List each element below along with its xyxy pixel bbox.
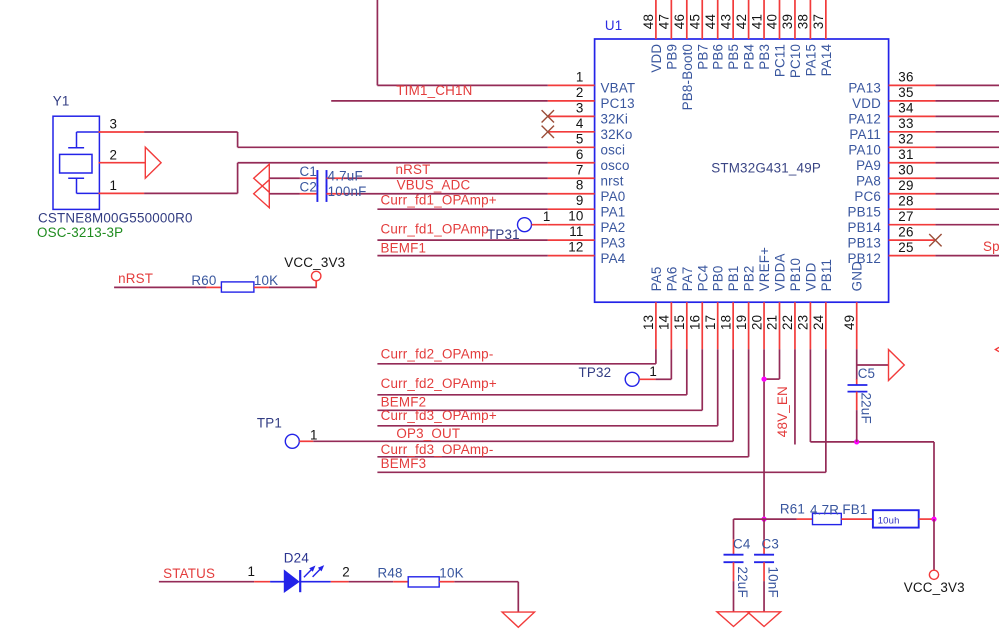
wire pin16 vertical (701, 349, 703, 410)
wire VDD vertical (809, 349, 811, 442)
C4 bottom pin (red) (733, 562, 735, 581)
svg-text:32: 32 (898, 132, 913, 147)
wire C1 gnd side (269, 177, 300, 179)
U1 pin 6 stub (548, 162, 595, 164)
Y1 pin 2 wire (red) (99, 162, 146, 164)
wire net pin30 to right edge (935, 177, 999, 179)
U1 pin 11 stub (548, 239, 595, 241)
U1 pin 12 stub (548, 255, 595, 257)
svg-text:VDD: VDD (852, 96, 881, 111)
U1 pin 26 stub (889, 239, 936, 241)
svg-text:PC6: PC6 (854, 189, 881, 204)
U1 pin 4 stub (548, 131, 595, 133)
R61 left pin (red) (797, 518, 813, 520)
svg-text:36: 36 (898, 70, 913, 85)
svg-text:8: 8 (576, 178, 584, 193)
svg-text:TIM1_CH1N: TIM1_CH1N (396, 83, 472, 98)
svg-text:3: 3 (576, 100, 584, 115)
U1 pin 33 stub (889, 131, 936, 133)
svg-text:Curr_fd3_OPAmp-: Curr_fd3_OPAmp- (381, 442, 494, 457)
wire nRST to R60 (114, 286, 206, 288)
wire C2 to U1 (344, 193, 548, 195)
svg-text:32Ko: 32Ko (601, 127, 633, 142)
U1 pin 1 stub (548, 84, 595, 86)
svg-text:22uF: 22uF (735, 567, 750, 598)
wire net pin35 to right edge (935, 100, 999, 102)
wire pin49 gnd branch (857, 364, 889, 366)
svg-text:PA4: PA4 (601, 251, 626, 266)
wire Curr_fd3_OPAmp- (377, 456, 748, 458)
capacitor C5 plates (848, 385, 868, 392)
Y1 pin 1 wire (red) (99, 192, 145, 194)
wire STATUS (159, 581, 254, 583)
wire net pin27 to right edge (935, 224, 999, 226)
wire osco (238, 162, 548, 164)
svg-text:37: 37 (811, 14, 826, 29)
LED D24 arrows (304, 565, 324, 577)
svg-text:Curr_fd1_OPAmp+: Curr_fd1_OPAmp+ (381, 192, 497, 207)
svg-text:13: 13 (641, 315, 656, 330)
svg-text:VDDA: VDDA (773, 253, 788, 291)
wire PC13 (331, 100, 548, 102)
U1 pin 10 stub (548, 224, 595, 226)
svg-text:17: 17 (703, 315, 718, 330)
C5 bottom pin (red) (856, 392, 858, 411)
C2 right pin (red) (327, 193, 345, 195)
svg-text:3: 3 (110, 117, 118, 132)
svg-text:R48: R48 (378, 566, 403, 581)
wire pin17 vertical (717, 349, 719, 426)
U1 pin 7 stub (548, 177, 595, 179)
svg-text:PA11: PA11 (849, 127, 881, 142)
capacitor C4 plates (724, 555, 744, 563)
svg-text:TP32: TP32 (579, 365, 612, 380)
VCC_3V3 power port circle (bottom) (929, 570, 938, 579)
U1 pin 41 stub (763, 0, 765, 39)
svg-text:Curr_fd1_OPAmp-: Curr_fd1_OPAmp- (381, 221, 494, 236)
svg-text:11: 11 (569, 224, 583, 239)
wire net pin28 to right edge (935, 208, 999, 210)
wire C3 to ground (763, 581, 765, 612)
wire net pin33 to right edge (935, 131, 999, 133)
svg-text:PB6: PB6 (711, 44, 726, 70)
resistor R48 body (408, 577, 439, 587)
svg-text:Curr_fd2_OPAmp-: Curr_fd2_OPAmp- (381, 346, 494, 361)
svg-text:VCC_3V3: VCC_3V3 (284, 255, 345, 270)
svg-text:Curr_fd3_OPAmp+: Curr_fd3_OPAmp+ (381, 408, 497, 423)
svg-text:49: 49 (842, 315, 857, 330)
wire pin49 down (856, 349, 858, 380)
R60 left pin (red) (206, 286, 221, 288)
svg-text:22uF: 22uF (859, 393, 874, 424)
resistor R60 body (221, 282, 254, 292)
U1 pin 35 stub (889, 100, 936, 102)
U1 pin 17 stub (717, 302, 719, 349)
U1 pin 30 stub (889, 177, 936, 179)
svg-text:1: 1 (576, 69, 584, 84)
svg-text:12: 12 (568, 240, 583, 255)
ground arrow at C1 (254, 164, 270, 192)
ground symbol at C4 (717, 612, 750, 627)
svg-text:2: 2 (342, 565, 350, 580)
U1 pin 22 stub (794, 302, 796, 349)
R48 right pin (red) (439, 581, 454, 583)
svg-text:2: 2 (110, 147, 118, 162)
svg-text:19: 19 (734, 315, 749, 330)
wire VDDA vertical (779, 349, 781, 379)
svg-text:100nF: 100nF (328, 184, 367, 199)
svg-text:2: 2 (576, 85, 584, 100)
U1 pin 2 stub (548, 100, 595, 102)
svg-text:27: 27 (898, 209, 913, 224)
wire net pin36 to right edge (935, 84, 999, 86)
wire C5 to rail (856, 410, 858, 442)
ground symbol at C3 (747, 612, 780, 627)
svg-text:PB14: PB14 (847, 220, 881, 235)
wire pin14 vertical (670, 349, 672, 379)
wire BEMF3 (377, 471, 825, 473)
svg-text:45: 45 (687, 14, 702, 29)
svg-text:9: 9 (576, 193, 584, 208)
svg-text:nRST: nRST (396, 162, 431, 177)
D24 pin 2 wire (red) (331, 581, 349, 583)
svg-text:VREF+: VREF+ (757, 247, 772, 292)
C1 left pin (red) (300, 177, 318, 179)
svg-text:PA7: PA7 (680, 266, 695, 291)
LED D24 triangle (284, 570, 299, 592)
U1 pin 18 stub (732, 302, 734, 349)
U1 pin 44 stub (717, 0, 719, 39)
test point TP32 (625, 372, 639, 386)
Y1 pin 3 wire (red) (99, 131, 145, 133)
svg-text:24: 24 (811, 314, 826, 330)
crystal Y1 symbol (60, 132, 100, 193)
svg-text:PA14: PA14 (819, 43, 834, 76)
svg-text:PC10: PC10 (788, 44, 803, 78)
test point TP31 (518, 218, 532, 232)
svg-text:4.7R: 4.7R (810, 503, 839, 518)
svg-text:10K: 10K (254, 273, 278, 288)
svg-text:20: 20 (749, 315, 764, 330)
U1 pin 43 stub (732, 0, 734, 39)
wire C4 top (733, 519, 735, 539)
wire net pin34 to right edge (935, 115, 999, 117)
svg-text:PB3: PB3 (757, 44, 772, 70)
svg-text:VBAT: VBAT (601, 81, 636, 96)
svg-text:1: 1 (543, 209, 551, 224)
svg-text:46: 46 (672, 14, 687, 29)
wire net pin29 to right edge (935, 193, 999, 195)
no-connect X pin 26 (929, 234, 941, 246)
wire pin24 vertical (825, 349, 827, 472)
U1 pin 20 stub (763, 302, 765, 349)
wire pin15 vertical (686, 349, 688, 395)
svg-text:PA5: PA5 (649, 266, 664, 291)
svg-text:34: 34 (898, 101, 914, 116)
wire Y1 pin3 horizontal (144, 131, 238, 133)
wire Y1 pin3 vertical (237, 132, 239, 147)
svg-text:C3: C3 (762, 536, 780, 551)
svg-text:osco: osco (601, 158, 630, 173)
svg-text:PA0: PA0 (601, 189, 626, 204)
C2 left pin (red) (300, 193, 318, 195)
svg-text:PB15: PB15 (847, 204, 881, 219)
svg-text:PA10: PA10 (848, 143, 881, 158)
wire 3V3 rail horizontal (810, 441, 934, 443)
wire Y1 pin1 vertical (237, 163, 239, 194)
svg-text:STM32G431_49P: STM32G431_49P (711, 161, 821, 176)
junction at C5 bottom (854, 439, 859, 444)
D24 pin 1 wire (red) (254, 581, 270, 583)
wire 48V_EN (794, 349, 796, 444)
svg-text:44: 44 (703, 14, 718, 30)
svg-text:PB1: PB1 (726, 265, 741, 291)
U1 pin 19 stub (748, 302, 750, 349)
svg-text:TP1: TP1 (257, 415, 282, 430)
U1 pin 29 stub (889, 193, 936, 195)
TP1 pin wire (red) (299, 440, 313, 442)
svg-text:28: 28 (898, 193, 913, 208)
wire TP32 to pin14 (656, 378, 672, 380)
svg-text:10nF: 10nF (766, 567, 781, 598)
svg-text:48V_EN: 48V_EN (775, 386, 790, 437)
R60 right pin (red) (254, 286, 269, 288)
svg-text:30: 30 (898, 162, 913, 177)
U1 pin 32 stub (889, 146, 936, 148)
svg-text:VDD: VDD (803, 262, 818, 291)
U1 pin 3 stub (548, 115, 595, 117)
svg-text:STATUS: STATUS (163, 566, 215, 581)
svg-text:10uh: 10uh (878, 516, 900, 527)
svg-text:15: 15 (672, 315, 687, 330)
C3 bottom pin (red) (763, 562, 765, 581)
svg-text:40: 40 (765, 14, 780, 29)
svg-text:22: 22 (780, 315, 795, 330)
wire Y1 pin1 horizontal (144, 192, 238, 194)
svg-text:1: 1 (248, 564, 256, 579)
svg-text:OP3_OUT: OP3_OUT (396, 426, 460, 441)
svg-text:43: 43 (718, 14, 733, 29)
svg-text:PA8: PA8 (856, 173, 881, 188)
inductor FB1 body (873, 510, 919, 527)
svg-text:47: 47 (657, 14, 672, 29)
svg-text:VCC_3V3: VCC_3V3 (904, 580, 965, 595)
svg-text:33: 33 (898, 116, 913, 131)
svg-text:D24: D24 (284, 551, 310, 566)
crystal Y1 box (53, 116, 99, 209)
wire TIM1_CH1N vertical (376, 0, 378, 85)
svg-text:OSC-3213-3P: OSC-3213-3P (37, 225, 123, 240)
svg-text:PB13: PB13 (847, 235, 881, 250)
LED D24 cathode bar (299, 570, 301, 592)
svg-text:C1: C1 (299, 164, 317, 179)
capacitor C1 plates (317, 170, 326, 186)
wire BEMF2 (377, 409, 702, 411)
svg-text:10: 10 (568, 209, 583, 224)
C3 top pin (red) (763, 539, 765, 554)
svg-text:4.7uF: 4.7uF (328, 169, 363, 184)
wire VREF+ vertical (763, 349, 765, 519)
svg-text:5: 5 (576, 131, 584, 146)
svg-text:nrst: nrst (601, 173, 624, 188)
svg-text:31: 31 (898, 147, 913, 162)
wire pin18 vertical (732, 349, 734, 441)
svg-text:PA15: PA15 (803, 44, 818, 77)
no-connect X pin 3 (542, 110, 554, 122)
U1 pin 28 stub (889, 208, 936, 210)
svg-text:18: 18 (718, 315, 733, 330)
wire Curr_fd1_OPAmp+ (377, 208, 547, 210)
wire pin13 vertical (655, 349, 657, 364)
U1 pin 42 stub (748, 0, 750, 39)
U1 pin 27 stub (889, 224, 936, 226)
TP31 pin wire (red) (532, 224, 548, 226)
svg-text:CSTNE8M00G550000R0: CSTNE8M00G550000R0 (38, 211, 193, 226)
svg-text:48: 48 (641, 14, 656, 29)
wire net pin32 to right edge (935, 146, 999, 148)
svg-text:Sp: Sp (983, 239, 999, 254)
svg-text:PB7: PB7 (695, 44, 710, 70)
svg-text:R61: R61 (780, 502, 805, 517)
svg-text:VBUS_ADC: VBUS_ADC (397, 178, 471, 193)
no-connect X pin 4 (542, 126, 554, 138)
U1 pin 9 stub (548, 208, 595, 210)
svg-text:C4: C4 (733, 536, 751, 551)
U1 pin 34 stub (889, 115, 936, 117)
svg-text:PA6: PA6 (664, 266, 679, 291)
junction VREF+/VDDA (761, 377, 766, 382)
svg-text:38: 38 (796, 14, 811, 29)
svg-text:PC11: PC11 (773, 44, 788, 77)
svg-text:PC13: PC13 (601, 96, 635, 111)
svg-text:42: 42 (734, 14, 749, 29)
svg-text:PB5: PB5 (726, 44, 741, 70)
svg-text:4: 4 (576, 116, 584, 131)
svg-text:PA13: PA13 (848, 81, 881, 96)
svg-text:FB1: FB1 (842, 502, 867, 517)
ground arrow at pin49 (889, 350, 905, 381)
capacitor C3 plates (754, 555, 774, 563)
svg-text:R60: R60 (191, 273, 216, 288)
wire pin19 vertical (748, 349, 750, 457)
wire 3V3 rail down (933, 442, 935, 519)
wire C2 gnd side (269, 193, 300, 195)
U1 pin 25 stub (889, 255, 936, 257)
svg-text:35: 35 (898, 85, 913, 100)
svg-text:PB2: PB2 (742, 265, 757, 291)
svg-text:PA3: PA3 (601, 235, 626, 250)
svg-text:10K: 10K (439, 566, 463, 581)
wire D24 to R48 (349, 581, 394, 583)
ground arrow tip (clipped at edge) (995, 347, 999, 351)
svg-text:6: 6 (576, 147, 584, 162)
wire BEMF1 (377, 255, 547, 257)
U1 pin 24 stub (825, 302, 827, 349)
svg-text:26: 26 (898, 224, 913, 239)
ground symbol at R48 (502, 612, 534, 627)
svg-text:39: 39 (780, 14, 795, 29)
U1 pin 15 stub (686, 302, 688, 349)
wire VREF node to C4 (734, 518, 765, 520)
microcontroller U1 body (595, 39, 889, 302)
R48 left pin (red) (393, 581, 408, 583)
svg-text:32Ki: 32Ki (601, 112, 629, 127)
svg-text:C2: C2 (299, 180, 317, 195)
svg-text:1: 1 (649, 364, 657, 379)
test point TP1 (285, 434, 299, 448)
U1 pin 38 stub (809, 0, 811, 39)
svg-text:Curr_fd2_OPAmp+: Curr_fd2_OPAmp+ (381, 376, 497, 391)
svg-text:Y1: Y1 (53, 93, 70, 108)
svg-text:14: 14 (657, 314, 672, 330)
U1 pin 39 stub (794, 0, 796, 39)
U1 pin 23 stub (809, 302, 811, 349)
U1 pin 40 stub (779, 0, 781, 39)
svg-text:PB0: PB0 (711, 265, 726, 291)
wire C4 to ground (733, 581, 735, 612)
svg-text:7: 7 (576, 162, 584, 177)
U1 pin 8 stub (548, 193, 595, 195)
svg-text:1: 1 (110, 178, 118, 193)
svg-text:PB4: PB4 (742, 43, 757, 69)
wire C3 top (763, 519, 765, 539)
svg-text:25: 25 (898, 240, 913, 255)
U1 pin 5 stub (548, 146, 595, 148)
U1 pin 31 stub (889, 162, 936, 164)
svg-text:C5: C5 (858, 366, 876, 381)
C5 top pin (red) (856, 379, 858, 385)
svg-text:U1: U1 (605, 18, 623, 33)
wire R61 to FB1 (red pins) (841, 518, 873, 520)
svg-text:41: 41 (749, 14, 764, 29)
VCC_3V3 power port circle (312, 271, 321, 280)
ground arrow at C2 (254, 180, 270, 208)
wire net pin31 to right edge (935, 162, 999, 164)
svg-text:PA9: PA9 (856, 158, 881, 173)
C1 right pin (red) (327, 177, 345, 179)
svg-text:PA12: PA12 (848, 112, 881, 127)
U1 pin 46 stub (686, 0, 688, 39)
svg-text:PB10: PB10 (788, 258, 803, 292)
svg-text:1: 1 (310, 428, 318, 443)
U1 pin 37 stub (825, 0, 827, 39)
U1 pin 16 stub (701, 302, 703, 349)
wire VREF node to R61 (764, 518, 797, 520)
svg-text:PC4: PC4 (695, 264, 710, 291)
svg-text:VDD: VDD (649, 44, 664, 73)
svg-text:nRST: nRST (118, 271, 153, 286)
U1 pin 47 stub (670, 0, 672, 39)
TP32 pin wire (red) (639, 378, 655, 380)
wire net pin25 to right edge (935, 255, 999, 257)
junction VCC node (931, 517, 936, 522)
svg-text:BEMF3: BEMF3 (381, 456, 427, 471)
junction VREF node (761, 517, 766, 522)
wire ground drop (517, 582, 519, 612)
resistor R61 body (813, 513, 842, 524)
U1 pin 21 stub (779, 302, 781, 349)
wire Curr_fd1_OPAmp- (377, 239, 547, 241)
svg-text:TP31: TP31 (487, 227, 520, 242)
svg-text:BEMF1: BEMF1 (381, 241, 427, 256)
svg-text:PB9: PB9 (664, 44, 679, 70)
U1 pin 36 stub (889, 84, 936, 86)
U1 pin 45 stub (701, 0, 703, 39)
LED D24 cathode lead (blue) (300, 581, 331, 583)
wire TIM1_CH1N horizontal (377, 84, 547, 86)
wire Curr_fd2_OPAmp+ (377, 394, 686, 396)
svg-text:GND: GND (850, 261, 865, 291)
